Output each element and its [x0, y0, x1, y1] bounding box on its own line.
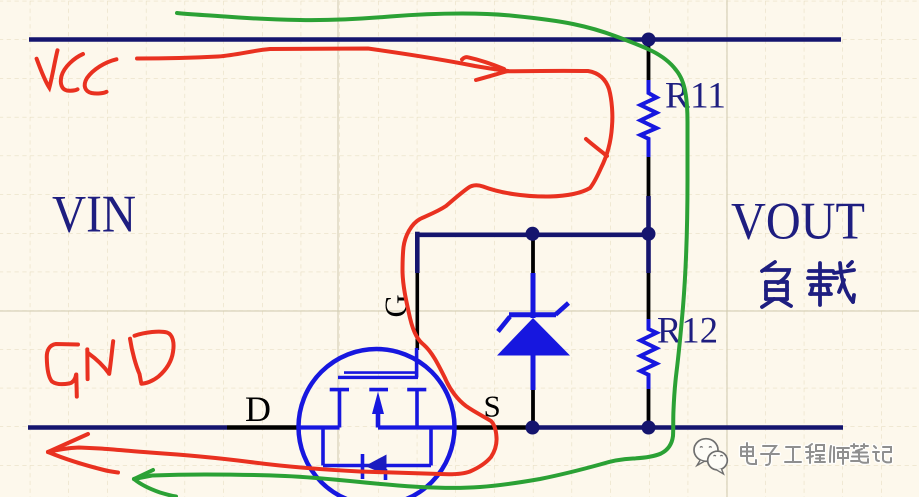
annotation: green return path with arrow [134, 13, 688, 497]
drain stub [338, 390, 342, 428]
wire: mid horizontal gate net [415, 233, 648, 238]
wire: gate net vertical (navy part) [415, 232, 420, 273]
label 负载 (load) drawn strokes [762, 262, 854, 307]
substrate arrow head [372, 392, 384, 415]
annotation: red VCC text [37, 50, 117, 93]
MOSFET body circle [299, 349, 455, 497]
channel dash left [330, 388, 349, 392]
source horizontal inside circle [378, 425, 453, 429]
svg-text:D: D [245, 389, 271, 429]
resistor R12 black pin top [647, 273, 651, 319]
source stub [415, 390, 419, 428]
pin: MOSFET drain pin (black) [227, 425, 300, 430]
resistor R11 body (blue zigzag) [641, 80, 657, 157]
wire: bottom rail right (navy) [532, 425, 843, 430]
gate lead horizontal [344, 371, 416, 374]
zener diode pin bottom (black) [531, 390, 535, 424]
body loop left vertical [321, 428, 325, 466]
svg-text:R11: R11 [665, 76, 726, 117]
drain horizontal inside circle [299, 425, 340, 429]
pin: gate pin black [415, 273, 419, 350]
resistor R12 black pin bottom [647, 389, 651, 424]
svg-text:R12: R12 [657, 311, 718, 352]
svg-text:VOUT: VOUT [731, 193, 865, 251]
watermark: WeChat logo [694, 439, 727, 474]
junction node: top rail / R11 [642, 33, 656, 47]
pin: MOSFET source pin (black) [454, 425, 532, 430]
junction node: mid / R11-R12 [642, 227, 656, 241]
resistor R11 black pin bottom [647, 157, 651, 196]
zener diode D1 (blue) [497, 273, 570, 390]
body loop right vertical [429, 428, 433, 466]
junction node: bottom / zener [526, 421, 540, 435]
resistor R11 branch: black pin top [647, 42, 651, 80]
gate lead inside circle [415, 348, 419, 378]
junction node: mid / zener top [526, 227, 540, 241]
substrate arrow shaft [376, 410, 381, 428]
junction node: bottom / R12 [642, 421, 656, 435]
wire: bottom rail left (navy) [28, 425, 227, 430]
MOSFET Q1 [299, 348, 455, 497]
body diode triangle [365, 455, 387, 476]
annotation: red current path (VCC loop with arrows) [48, 49, 612, 475]
body diode anode tick [384, 469, 388, 480]
body diode cathode bar [361, 454, 365, 479]
zener diode pin top (black) [531, 237, 535, 273]
wire: R11 to mid node (navy) [646, 196, 651, 233]
annotation: red GND text [47, 332, 174, 397]
body loop bottom horizontal [323, 464, 431, 468]
resistor R12 body (blue zigzag) [641, 319, 657, 389]
wire: mid node to R12 (navy) [646, 234, 651, 273]
watermark: 电子工程师笔记 text strokes [741, 443, 891, 465]
wire: top VIN+ rail [29, 37, 841, 42]
gate bar [338, 376, 418, 379]
svg-text:VIN: VIN [52, 186, 136, 244]
channel dash middle [369, 388, 388, 392]
channel dash right [407, 388, 426, 392]
